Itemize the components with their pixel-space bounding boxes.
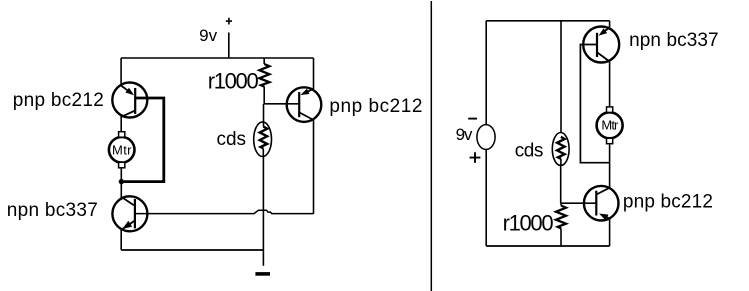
svg-text:npn bc337: npn bc337 [7,200,98,221]
motor M2 Mtr (right) [597,107,623,144]
wire pnp1 emitter down to motor [120,117,122,132]
transistor Q4 npn bc337 (right) [583,27,619,63]
svg-text:pnp bc212: pnp bc212 [329,96,422,117]
node + (positive terminal left circuit) [226,18,232,25]
wire pnp3 emitter down to bottom rail [609,219,611,246]
svg-text:r1000: r1000 [208,69,259,94]
wire motor1 bottom to npn1 collector [120,168,122,197]
wire npn2 bottom down to motor [609,62,611,108]
svg-text:pnp bc212: pnp bc212 [623,191,713,212]
svg-text:Mtr: Mtr [112,143,132,158]
transistor Q3 pnp bc212 (left circuit right) [287,87,322,122]
svg-text:npn bc337: npn bc337 [629,30,719,51]
wire rail end down to npn2 top [609,21,611,28]
photocell cds (right) [552,133,569,166]
wire bottom rail (left circuit) [121,249,263,251]
wire bottom rail (right circuit) [486,245,609,247]
svg-text:cds: cds [515,140,544,161]
wire 9v bottom down to bottom rail [485,149,487,246]
node junction dot (motor-/npn collector/base feedback) [119,179,124,184]
ground minus terminal (left) [255,272,270,276]
wire top rail (right circuit) [486,20,609,22]
svg-text:9v: 9v [199,26,218,45]
wire cds bottom down to bottom rail and minus stub [262,157,264,266]
battery 9v source (right) [477,125,495,150]
wire cds column from rail down [560,21,562,133]
node plus label (right battery) [470,152,481,163]
wire thick base feedback U (pnp1 base to motor-bottom junction) [124,98,164,182]
svg-text:9v: 9v [456,125,473,144]
wire base junction to pnp3 base [561,202,597,204]
wire npn1 base line with hop over cds wire, to pnp2 collector [135,210,314,213]
wire pnp2 emitter up to rail [313,58,315,89]
photocell cds (left) [254,122,272,157]
resistor r1000 (right) [556,203,566,246]
svg-text:pnp bc212: pnp bc212 [13,90,104,111]
wire cds bottom to base junction [560,166,562,204]
svg-text:r1000: r1000 [503,210,554,235]
transistor Q1 pnp bc212 (left) [112,83,147,118]
wire junction down into cds [263,104,265,127]
transistor Q5 pnp bc212 (right) [584,186,619,221]
wire motor2 bottom down to pnp3 [609,144,611,188]
wire pnp2 collector down then left along base line [313,120,315,214]
wire npn1 emitter down to bottom rail [120,230,122,251]
wire divider between circuits [430,1,432,291]
wire left vertical from rail to pnp1 [120,58,122,86]
wire 9v stub down to top rail [228,33,230,59]
wire top rail (left circuit) [121,57,314,59]
svg-text:Mtr: Mtr [601,118,619,133]
node minus label (right battery) [468,118,477,120]
transistor Q2 npn bc337 (left) [112,196,147,231]
wire left vertical down to 9v source [485,21,487,125]
wire base junction to pnp2 base [264,103,299,105]
resistor r1000 (left) [259,58,269,104]
wire npn2 base left and down to motor/pnp junction [580,45,609,163]
motor M1 Mtr (left) [109,132,135,168]
svg-text:cds: cds [217,129,247,150]
